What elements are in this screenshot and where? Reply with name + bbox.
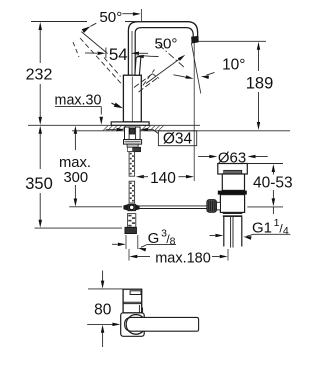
drain o-ring — [218, 191, 247, 195]
label G3/8 — [112, 228, 176, 252]
plan body — [123, 289, 142, 313]
body centerline — [131, 77, 133, 122]
svg-text:Ø63: Ø63 — [218, 149, 246, 166]
drain neck — [222, 174, 244, 190]
supply hose upper segment — [129, 152, 135, 177]
countertop section — [28, 125, 290, 131]
svg-text:max.: max. — [59, 155, 91, 171]
rod knob — [207, 200, 221, 213]
svg-text:50°: 50° — [99, 9, 122, 26]
dim arrow at tailpipe left — [210, 234, 224, 237]
svg-text:54: 54 — [109, 45, 128, 64]
dim 40-53 — [247, 164, 292, 215]
dim O63 — [198, 149, 268, 166]
spout — [128, 22, 198, 75]
hose end nut — [125, 227, 137, 233]
svg-text:232: 232 — [26, 67, 53, 84]
lever handle (upright) — [135, 57, 141, 75]
water stream 10deg line — [191, 43, 201, 94]
svg-text:300: 300 — [63, 170, 88, 186]
rotated handle dashed (right) — [143, 70, 155, 86]
drain flange — [218, 164, 248, 175]
svg-text:189: 189 — [246, 75, 274, 93]
svg-text:50°: 50° — [155, 36, 178, 53]
plan handle joint — [139, 305, 142, 313]
rotated handle extension line (left) — [81, 32, 107, 54]
handle extension line top — [141, 9, 143, 22]
plan body band — [123, 302, 142, 303]
dim 189 — [199, 41, 274, 130]
ext lines hose end — [126, 235, 138, 249]
dim 232 — [26, 22, 142, 125]
dim 140 — [136, 170, 194, 187]
dim max.300 — [59, 126, 122, 207]
svg-text:80: 80 — [94, 302, 112, 319]
horizontal pop-up rod — [137, 206, 207, 209]
svg-text:max.180: max.180 — [155, 250, 211, 266]
label max.30 — [55, 93, 103, 125]
escutcheon plate — [111, 122, 149, 125]
dim 54 — [85, 45, 148, 64]
svg-text:4: 4 — [283, 225, 289, 237]
svg-text:10°: 10° — [222, 56, 245, 73]
pop-up rod coupler — [123, 204, 139, 211]
dim 10deg — [173, 56, 245, 79]
plan escutcheon square — [121, 313, 145, 337]
label G1 1/4 — [243, 217, 290, 240]
drain flange seal band — [224, 170, 242, 174]
body side detail mark — [112, 103, 124, 109]
faucet body — [123, 75, 141, 122]
drain tailpipe — [224, 217, 242, 248]
dim max.180 — [129, 249, 228, 266]
dim 80 — [87, 271, 120, 348]
supply hose lower segment — [129, 181, 135, 203]
hose end nipple — [128, 214, 136, 228]
svg-text:max.30: max.30 — [55, 93, 102, 109]
swivel spout axis leader — [146, 55, 185, 84]
dim 350 — [25, 126, 122, 228]
drain body — [220, 195, 244, 213]
plan view extension top — [88, 288, 123, 290]
swivel spout dashed stub — [134, 74, 159, 92]
svg-text:140: 140 — [150, 170, 176, 187]
outlet vertical reference line — [193, 43, 195, 182]
svg-text:Ø34: Ø34 — [163, 130, 193, 147]
dim 50deg handle — [82, 9, 141, 33]
plan aerator slot — [130, 291, 141, 295]
plan pivot circle — [126, 315, 146, 335]
mounting shank and nut — [124, 127, 142, 152]
dim O34 — [106, 128, 197, 148]
swivel spout dash-dot down-right — [159, 45, 185, 68]
drain lower band — [223, 212, 243, 217]
svg-text:8: 8 — [170, 235, 176, 247]
svg-text:350: 350 — [25, 175, 53, 193]
rotated handle dashed (left) — [73, 38, 123, 85]
dim 50deg spout — [136, 36, 178, 59]
plan lever — [125, 315, 199, 335]
svg-text:40-53: 40-53 — [253, 175, 293, 192]
